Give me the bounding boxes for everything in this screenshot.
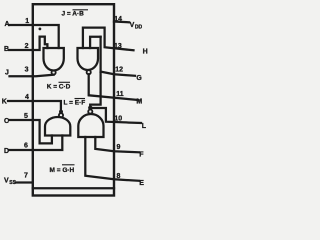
NAND gate G2 body <box>78 48 99 70</box>
svg-text:V: V <box>130 22 135 29</box>
svg-text:11: 11 <box>116 91 124 98</box>
pin 5 wire C <box>9 120 52 143</box>
pin 3 wire J <box>10 75 54 77</box>
svg-text:3: 3 <box>25 67 29 74</box>
svg-text:V: V <box>4 177 9 184</box>
svg-text:K = C·D: K = C·D <box>47 84 71 91</box>
svg-text:J = A·B: J = A·B <box>62 10 85 17</box>
gate G2 output bubble <box>87 70 91 74</box>
svg-text:K: K <box>2 98 7 105</box>
NAND gate G1 body <box>44 48 64 71</box>
svg-text:G: G <box>136 75 142 82</box>
svg-text:2: 2 <box>25 43 29 50</box>
svg-text:6: 6 <box>24 143 28 150</box>
svg-text:9: 9 <box>117 144 121 151</box>
svg-text:4: 4 <box>25 94 29 101</box>
svg-text:8: 8 <box>117 173 121 180</box>
pin 8 wire E <box>85 137 139 181</box>
gate G4 output bubble <box>88 110 92 114</box>
svg-text:D: D <box>4 148 9 155</box>
pin 10 wire L <box>90 108 141 123</box>
svg-text:SS: SS <box>9 180 16 186</box>
pin 4 wire K <box>8 101 61 113</box>
svg-text:E: E <box>139 180 144 187</box>
pin 14 wire VDD <box>114 20 129 23</box>
svg-text:5: 5 <box>24 113 28 120</box>
long vertical net to gate G4 output <box>90 37 100 108</box>
svg-text:10: 10 <box>114 115 122 122</box>
svg-text:7: 7 <box>24 173 28 180</box>
pin 7 wire VSS <box>16 181 33 183</box>
svg-text:L: L <box>142 123 147 130</box>
svg-text:14: 14 <box>114 16 122 23</box>
gate G1 output bubble <box>52 70 56 74</box>
svg-text:DD: DD <box>135 25 143 31</box>
svg-text:F: F <box>139 151 144 158</box>
pin 13 wire H staircase <box>83 28 134 51</box>
pin 2 wire B <box>9 37 47 50</box>
svg-text:M: M <box>136 98 142 105</box>
package bottom inner line <box>33 187 114 189</box>
gate G4 junction dot <box>88 106 92 110</box>
gate G2 right input jog <box>90 37 101 48</box>
NAND gate G3 body <box>45 117 70 136</box>
gate G3 output bubble <box>59 113 63 117</box>
NAND gate G4 body <box>78 114 103 137</box>
svg-text:A: A <box>5 21 10 28</box>
node dot near gate 1 <box>39 28 42 31</box>
pin 1 wire A <box>9 25 59 48</box>
svg-text:L = E·F: L = E·F <box>64 100 86 107</box>
svg-text:B: B <box>4 46 9 53</box>
svg-text:M = G·H: M = G·H <box>50 167 75 174</box>
svg-text:12: 12 <box>115 67 123 74</box>
svg-text:1: 1 <box>25 18 29 25</box>
pin 9 wire F <box>95 137 139 152</box>
pin 11 wire M <box>89 74 139 100</box>
svg-text:H: H <box>143 48 148 55</box>
gate G3 junction dot <box>59 110 63 114</box>
svg-text:J: J <box>5 70 9 77</box>
pin 6 wire D <box>9 136 62 151</box>
svg-text:13: 13 <box>114 43 122 50</box>
IC package outline U1 <box>33 4 114 195</box>
svg-text:C: C <box>4 118 9 125</box>
pin 12 wire G <box>101 72 135 76</box>
